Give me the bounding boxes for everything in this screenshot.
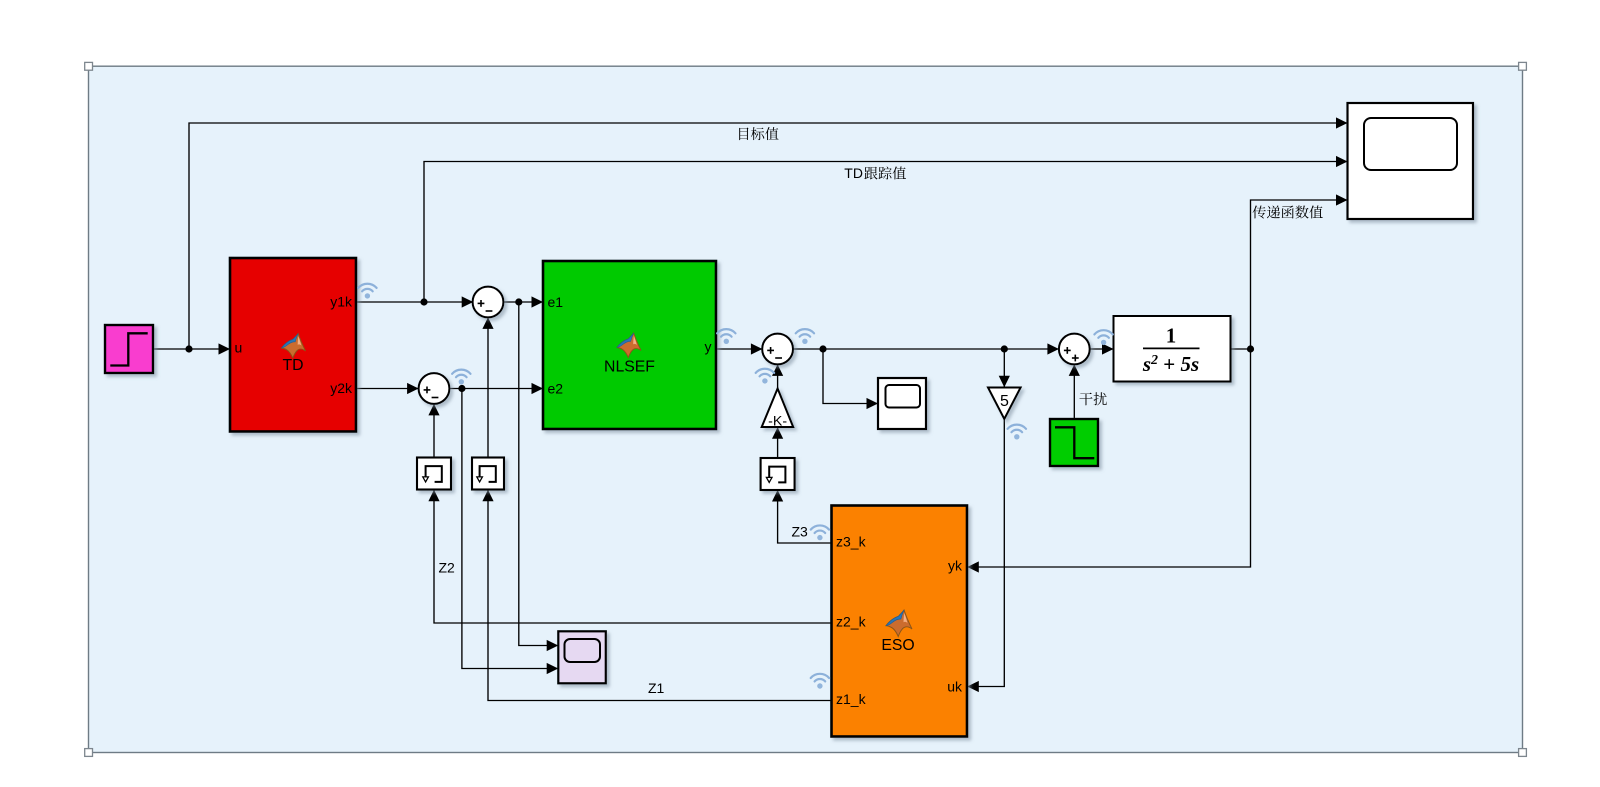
wire Z1: ESO.z1_k left then up into memory B <box>488 490 832 701</box>
svg-text:TD: TD <box>282 357 303 374</box>
junction node before S4 <box>1001 345 1008 352</box>
signal logging badge 2 <box>452 370 470 378</box>
svg-text:1: 1 <box>1166 324 1177 348</box>
selection handle <box>1519 62 1527 70</box>
wire: S2 junction down to purple scope input 2 <box>462 389 558 669</box>
svg-text:5: 5 <box>1000 393 1009 410</box>
svg-text:y2k: y2k <box>330 380 353 396</box>
wire: S2 out to NLSEF.e2 with junction <box>449 388 543 390</box>
wire: gain -K- up into S3 bottom <box>777 364 779 392</box>
svg-text:z2_k: z2_k <box>836 614 867 630</box>
svg-text:y: y <box>705 338 712 354</box>
signal logging badge 5 <box>756 369 774 377</box>
label 目标值 <box>739 127 778 140</box>
TD MATLAB function block (red) <box>230 258 356 432</box>
junction node at step output <box>185 345 192 352</box>
junction node after S3 <box>819 345 826 352</box>
wire: memory C up into gain -K- <box>777 427 779 458</box>
wire 传递函数值: J7 up to big scope input 3 <box>1251 200 1348 349</box>
wire: junction down into gain 5 <box>1003 349 1005 387</box>
wire Z2: ESO.z2_k left then up into memory A <box>434 490 832 623</box>
wire: S4 out to transfer fcn <box>1090 348 1114 350</box>
wire/node: 目标值 line from junction up to big scope input 1 <box>189 123 1348 349</box>
sum block S3 <box>762 334 793 365</box>
signal logging badge 4 <box>796 329 814 337</box>
svg-text:y1k: y1k <box>330 294 353 310</box>
svg-text:Z1: Z1 <box>648 680 665 696</box>
wire: TD跟踪值 line from junction up to big scope input 2 <box>424 162 1348 303</box>
wire: gain 5 output down then left into ESO.uk <box>967 419 1004 687</box>
memory block M1 <box>417 458 451 490</box>
wire: step input to TD.u with junction <box>153 348 230 350</box>
wire: memory B out up to S1 bottom <box>487 317 489 457</box>
wire Z3: ESO.z3_k left then up into memory C <box>778 490 832 543</box>
sum block S1 <box>473 287 504 318</box>
signal logging badge 1 <box>358 284 376 292</box>
svg-text:Z2: Z2 <box>439 559 456 575</box>
sum block S2 <box>419 373 450 404</box>
wire: junction down to scope1 <box>823 349 878 404</box>
signal logging badge 6 <box>1094 330 1112 338</box>
junction node at transfer fcn output <box>1247 345 1254 352</box>
svg-text:uk: uk <box>947 679 963 695</box>
MATLAB logo on TD <box>282 334 306 359</box>
wire: S1 out to NLSEF.e1 with junction <box>503 301 543 303</box>
wire: TD.y2k to sum S2 <box>357 388 419 390</box>
svg-text:z3_k: z3_k <box>836 534 867 550</box>
svg-text:s2 + 5s: s2 + 5s <box>1142 352 1199 376</box>
memory block M2 <box>472 458 504 490</box>
scope block (large, top right) <box>1348 103 1474 219</box>
wire: NLSEF.y to S3 <box>716 348 762 350</box>
wire: S3 out to S4 with two junctions <box>793 348 1059 350</box>
wire: TD.y1k to sum S1 with junction <box>357 301 474 303</box>
transfer fcn block 1/(s^2+5s) <box>1114 316 1231 382</box>
wire: transfer fcn out to junction J7 <box>1231 348 1251 350</box>
junction node after S2 <box>458 385 465 392</box>
signal logging badge 7 <box>1008 425 1026 433</box>
svg-text:-K-: -K- <box>768 414 787 430</box>
step source block (magenta) <box>105 325 153 373</box>
wire: S1 junction down to purple scope input 1 <box>519 302 558 646</box>
sum block S4 <box>1059 334 1090 365</box>
scope block (small, mid) <box>878 378 926 429</box>
disturbance step block 干扰 (green) <box>1050 419 1098 466</box>
selection handle <box>85 749 93 757</box>
svg-text:TD: TD <box>844 165 863 181</box>
gain block -K- (triangle up) <box>762 389 794 428</box>
ESO MATLAB function block (orange) <box>832 506 968 737</box>
svg-text:e2: e2 <box>548 381 564 397</box>
NLSEF MATLAB function block (green) <box>543 261 716 429</box>
svg-text:NLSEF: NLSEF <box>604 359 655 376</box>
scope block (purple, bottom) <box>558 631 606 683</box>
selection handle <box>85 62 93 70</box>
selection handle <box>1519 749 1527 757</box>
gain block 5 (triangle down) <box>988 388 1021 420</box>
wire yk: J7 down then left into ESO.yk <box>967 349 1250 567</box>
memory block M3 <box>761 458 795 490</box>
svg-text:ESO: ESO <box>881 637 914 654</box>
svg-text:Z3: Z3 <box>792 524 809 540</box>
MATLAB logo on ESO <box>886 610 912 636</box>
junction node after S1 <box>515 298 522 305</box>
signal logging badge 8 <box>811 525 829 533</box>
svg-text:yk: yk <box>948 558 963 574</box>
junction node on y1k wire <box>420 298 427 305</box>
svg-text:e1: e1 <box>548 294 564 310</box>
svg-text:u: u <box>235 340 243 356</box>
signal logging badge 9 <box>811 674 829 682</box>
wire 干扰: step2 up into S4 bottom <box>1073 364 1075 419</box>
MATLAB logo on NLSEF <box>617 333 641 358</box>
wire: memory A out up to S2 bottom <box>433 404 435 458</box>
signal logging badge 3 <box>717 329 735 337</box>
svg-text:z1_k: z1_k <box>836 691 867 707</box>
label 干扰 <box>1079 392 1106 405</box>
label 传递函数值 <box>1253 205 1323 218</box>
